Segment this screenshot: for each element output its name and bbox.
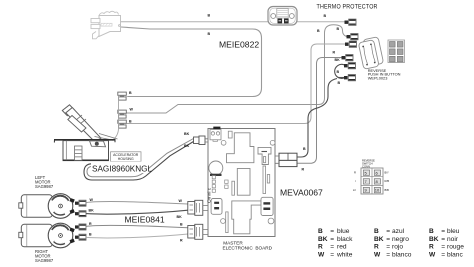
label BK T5 xyxy=(335,58,341,62)
svg-text:BK: BK xyxy=(184,144,190,148)
board circle small left xyxy=(221,140,226,145)
left motor terminal BK xyxy=(75,211,86,217)
svg-text:BK: BK xyxy=(429,236,439,243)
connector board right B R xyxy=(275,153,297,166)
label B R connector xyxy=(302,147,307,172)
svg-text:WEPL0023: WEPL0023 xyxy=(368,75,388,80)
svg-text:B: B xyxy=(303,147,306,151)
svg-text:=: = xyxy=(386,228,390,235)
svg-text:10: 10 xyxy=(375,188,380,193)
svg-text:r: r xyxy=(355,179,356,183)
svg-text:B: B xyxy=(129,120,132,124)
board bottom circles xyxy=(221,218,274,224)
right motor xyxy=(19,223,75,248)
board wide vrect xyxy=(237,169,250,196)
svg-text:B: B xyxy=(180,223,183,227)
board screw terminal xyxy=(210,130,221,142)
svg-text:rojo: rojo xyxy=(392,243,403,250)
labels around block xyxy=(353,159,389,192)
svg-text:=: = xyxy=(386,251,390,258)
accelerator pedal assembly xyxy=(54,105,118,161)
board circle top right xyxy=(270,140,275,145)
label B ring xyxy=(337,70,340,74)
label MASTER ELECTRONIC BOARD xyxy=(223,241,273,251)
label B accel T3 xyxy=(129,120,132,124)
label B arc T2 xyxy=(337,27,340,31)
board L component xyxy=(227,133,254,163)
svg-text:R/B: R/B xyxy=(385,179,390,183)
label B accel T1 xyxy=(129,91,132,95)
svg-text:BK: BK xyxy=(184,132,190,136)
legend column 3 xyxy=(429,228,464,259)
label THERMO PROTECTOR xyxy=(317,4,378,10)
svg-text:=: = xyxy=(441,243,445,250)
svg-text:MEIE0822: MEIE0822 xyxy=(219,40,259,50)
svg-text:black: black xyxy=(337,236,353,243)
reverse wire connector block 2x3 xyxy=(361,168,383,194)
label MEIE0822 xyxy=(219,40,259,50)
wire left motor W xyxy=(86,202,188,204)
wire accel terminals feed xyxy=(112,96,119,141)
board squares pair xyxy=(225,180,228,188)
legend column 2 xyxy=(374,228,412,259)
wire battery B loop xyxy=(121,27,262,97)
svg-text:=: = xyxy=(441,236,445,243)
wire accelerator B to terminal T3 xyxy=(127,44,346,124)
label B vertical xyxy=(317,29,320,33)
svg-text:R: R xyxy=(180,239,183,243)
board thin bars right xyxy=(263,166,270,194)
connector left motor to board xyxy=(188,200,208,215)
wire battery B top xyxy=(121,21,345,23)
wire board R to terminal T4 xyxy=(297,58,342,164)
label MEVA0067 xyxy=(280,188,323,198)
terminal T5 xyxy=(344,63,356,69)
svg-text:BK: BK xyxy=(374,236,384,243)
label SAGI8960KNGL xyxy=(92,165,153,174)
accelerator terminal B top xyxy=(118,92,127,100)
reverse button connector block xyxy=(388,40,405,63)
board small rect top xyxy=(228,131,232,138)
svg-text:BK: BK xyxy=(89,209,95,213)
right motor terminal R xyxy=(75,224,86,230)
svg-text:W: W xyxy=(374,251,381,258)
label R T4 xyxy=(333,51,336,55)
wire right motor B xyxy=(86,234,188,238)
connector right motor to board xyxy=(188,224,208,239)
terminal T6 xyxy=(344,75,356,81)
svg-text:W: W xyxy=(318,251,325,258)
svg-text:B: B xyxy=(208,32,211,36)
svg-text:B: B xyxy=(208,14,211,18)
svg-text:W: W xyxy=(130,108,134,112)
wire BK loop outer xyxy=(84,142,194,181)
svg-text:=: = xyxy=(330,251,334,258)
board thin bar bottom left xyxy=(226,212,228,233)
svg-text:SAG9987: SAG9987 xyxy=(35,258,54,263)
svg-text:=: = xyxy=(330,228,334,235)
label B at T1 xyxy=(324,14,327,18)
accelerator terminal B bottom xyxy=(118,120,127,128)
wire right motor R xyxy=(86,225,188,227)
label B T6 xyxy=(338,81,341,85)
board black tab xyxy=(213,127,220,130)
svg-text:blue: blue xyxy=(337,228,350,235)
svg-text:azul: azul xyxy=(392,228,405,235)
board T plug component xyxy=(258,147,271,164)
board thin vbar xyxy=(232,181,235,195)
svg-text:SAG9987: SAG9987 xyxy=(35,184,54,189)
board silkscreen vertical text xyxy=(207,187,213,203)
left motor xyxy=(19,194,75,219)
label LEFT MOTOR SAG9987 xyxy=(35,175,54,189)
svg-text:HOUSING: HOUSING xyxy=(118,157,134,161)
board relay box xyxy=(211,199,222,215)
connector accel to board xyxy=(194,136,209,145)
svg-text:negro: negro xyxy=(392,236,409,243)
svg-text:B: B xyxy=(317,29,320,33)
wire BK ring terminals T5 T6 to board B xyxy=(297,64,344,157)
label W accel xyxy=(130,108,134,112)
svg-text:bleu: bleu xyxy=(447,228,460,235)
svg-text:red: red xyxy=(337,243,347,250)
svg-text:B/Y: B/Y xyxy=(385,171,390,175)
svg-text:ELECTRONIC BOARD: ELECTRONIC BOARD xyxy=(223,245,273,250)
white mask under SAGI label xyxy=(91,162,148,174)
svg-text:R: R xyxy=(302,168,305,172)
svg-text:R: R xyxy=(429,243,434,250)
wire left motor BK xyxy=(86,210,188,214)
svg-text:BK: BK xyxy=(335,58,341,62)
label B battery wire 1 xyxy=(208,14,211,18)
label BK board wires xyxy=(184,132,190,148)
wire accel T1 stub xyxy=(127,96,129,98)
svg-text:W: W xyxy=(429,251,436,258)
svg-text:CONN: CONN xyxy=(362,165,370,169)
battery connector xyxy=(91,11,121,39)
svg-text:white: white xyxy=(336,251,353,258)
svg-text:B: B xyxy=(338,81,341,85)
svg-text:MEVA0067: MEVA0067 xyxy=(280,188,323,198)
svg-text:B: B xyxy=(318,228,323,235)
reverse rocker switch xyxy=(358,37,384,70)
label B battery wire 2 xyxy=(208,32,211,36)
left motor terminal W xyxy=(75,200,86,206)
svg-text:W: W xyxy=(179,199,183,203)
svg-text:=: = xyxy=(386,236,390,243)
terminal T1 xyxy=(345,19,357,25)
wire accelerator W to terminal T2 xyxy=(127,25,347,113)
wire BK loop inner xyxy=(87,139,194,177)
label MEIE0841 xyxy=(125,215,165,225)
svg-text:R: R xyxy=(374,243,379,250)
svg-text:B: B xyxy=(129,91,132,95)
svg-text:SAGI8960KNGL: SAGI8960KNGL xyxy=(92,165,153,174)
board big circle xyxy=(209,161,223,176)
label RIGHT MOTOR SAG9987 xyxy=(35,249,54,263)
terminal T3 xyxy=(345,41,357,47)
svg-text:BK: BK xyxy=(318,236,328,243)
svg-text:BK: BK xyxy=(177,215,183,219)
svg-text:THERMO PROTECTOR: THERMO PROTECTOR xyxy=(317,4,378,10)
svg-text:R: R xyxy=(318,243,323,250)
right motor terminal B xyxy=(75,234,86,240)
label B R at connector 2 xyxy=(180,223,183,243)
terminal T2 xyxy=(347,34,359,40)
svg-text:B/B: B/B xyxy=(385,188,390,192)
svg-text:MEIE0841: MEIE0841 xyxy=(125,215,165,225)
svg-text:W: W xyxy=(90,198,94,202)
wire terminal T6 stub xyxy=(338,77,344,79)
label REVERSE PUSH IN BUTTON WEPL0023 xyxy=(368,68,401,80)
svg-text:=: = xyxy=(330,243,334,250)
svg-text:=: = xyxy=(441,228,445,235)
svg-text:blanco: blanco xyxy=(392,251,412,258)
board right box xyxy=(261,197,273,215)
svg-text:B: B xyxy=(337,27,340,31)
board dip squares column xyxy=(212,176,215,193)
thermo protector xyxy=(268,7,297,26)
svg-text:=: = xyxy=(386,243,390,250)
label W BK at connector 1 xyxy=(177,199,183,219)
svg-text:B: B xyxy=(374,228,379,235)
svg-text:B: B xyxy=(429,228,434,235)
svg-text:blanc: blanc xyxy=(447,251,463,258)
svg-text:L/r: L/r xyxy=(353,188,356,192)
label box ACCELERATOR HOUSING xyxy=(111,152,142,162)
label W BK left motor xyxy=(89,198,95,213)
label R B right motor xyxy=(89,222,92,237)
svg-text:B: B xyxy=(337,70,340,74)
svg-text:rouge: rouge xyxy=(447,243,464,250)
legend column 1 xyxy=(318,228,353,259)
board big bottom component xyxy=(232,201,261,234)
svg-text:R: R xyxy=(354,171,356,175)
svg-text:=: = xyxy=(441,251,445,258)
svg-text:R: R xyxy=(333,51,336,55)
svg-text:=: = xyxy=(330,236,334,243)
svg-text:noir: noir xyxy=(447,236,459,243)
accelerator terminal W xyxy=(118,110,127,118)
terminal T4 xyxy=(342,55,354,61)
svg-text:B: B xyxy=(324,14,327,18)
svg-text:B: B xyxy=(89,233,92,237)
master electronic board outline xyxy=(208,129,275,237)
